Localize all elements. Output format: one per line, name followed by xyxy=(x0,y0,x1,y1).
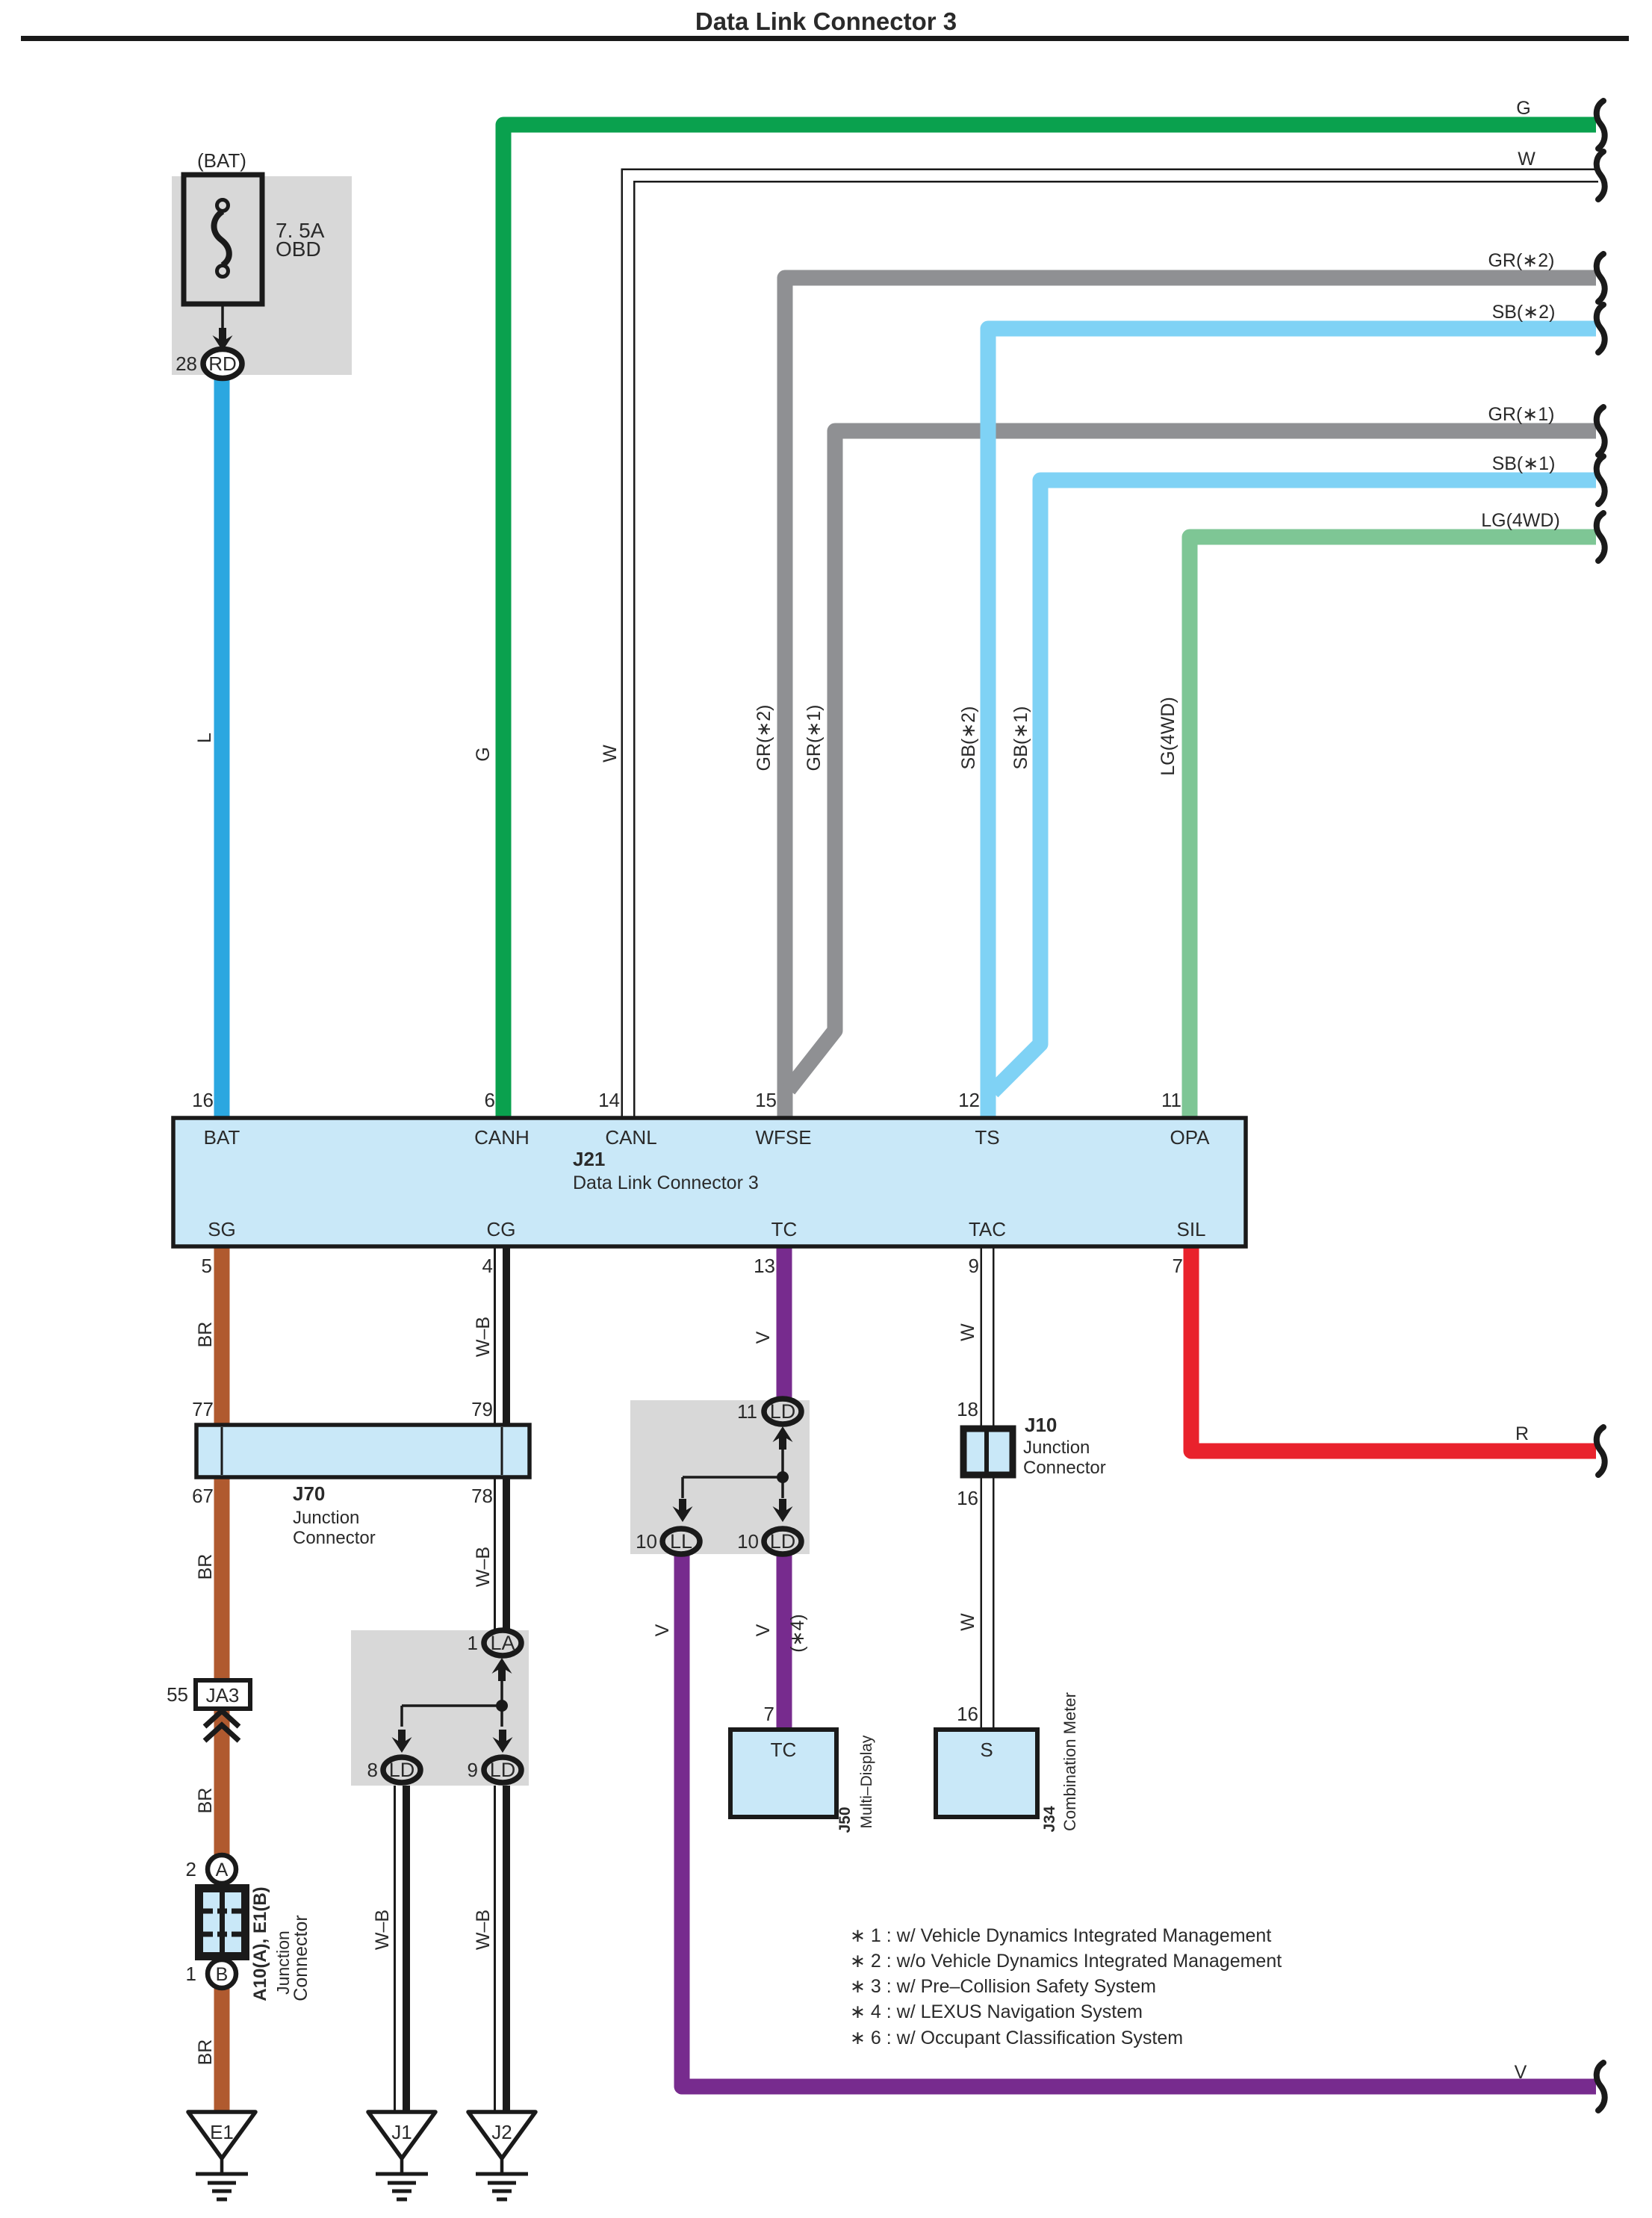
svg-text:G: G xyxy=(1516,98,1530,119)
svg-text:Connector: Connector xyxy=(293,1528,376,1548)
svg-text:V: V xyxy=(1515,2062,1527,2083)
svg-text:LG(4WD): LG(4WD) xyxy=(1158,697,1179,776)
svg-text:GR(∗1): GR(∗1) xyxy=(804,704,825,771)
svg-text:(BAT): (BAT) xyxy=(197,149,246,172)
svg-text:SIL: SIL xyxy=(1176,1218,1205,1240)
svg-text:J34: J34 xyxy=(1041,1806,1058,1832)
svg-text:16: 16 xyxy=(957,1703,978,1725)
svg-text:BAT: BAT xyxy=(204,1126,240,1149)
svg-text:LD: LD xyxy=(490,1759,516,1781)
svg-text:CG: CG xyxy=(487,1218,516,1240)
svg-text:Junction: Junction xyxy=(1023,1438,1090,1458)
svg-text:A: A xyxy=(216,1860,229,1880)
svg-text:16: 16 xyxy=(957,1487,978,1509)
svg-text:28: 28 xyxy=(176,352,197,375)
svg-text:LD: LD xyxy=(770,1530,796,1553)
svg-text:JA3: JA3 xyxy=(206,1684,240,1706)
svg-text:Junction: Junction xyxy=(293,1508,359,1528)
svg-text:1: 1 xyxy=(186,1963,196,1985)
svg-text:∗ 3 : w/ Pre–Collision Safety: ∗ 3 : w/ Pre–Collision Safety System xyxy=(850,1976,1156,1997)
svg-text:W–B: W–B xyxy=(372,1910,393,1950)
svg-text:9: 9 xyxy=(969,1255,979,1277)
svg-text:V: V xyxy=(753,1624,774,1636)
svg-text:16: 16 xyxy=(192,1089,214,1111)
svg-text:79: 79 xyxy=(471,1398,493,1420)
svg-text:Data Link Connector 3: Data Link Connector 3 xyxy=(573,1172,759,1193)
svg-text:SB(∗2): SB(∗2) xyxy=(958,706,979,770)
svg-text:67: 67 xyxy=(192,1485,214,1507)
svg-text:LD: LD xyxy=(389,1759,415,1781)
svg-text:WFSE: WFSE xyxy=(755,1126,811,1149)
svg-text:BR: BR xyxy=(195,1554,216,1580)
svg-text:SG: SG xyxy=(208,1218,236,1240)
svg-text:55: 55 xyxy=(167,1683,188,1706)
svg-text:LL: LL xyxy=(670,1530,692,1553)
svg-text:GR(∗1): GR(∗1) xyxy=(1488,404,1554,425)
svg-text:10: 10 xyxy=(636,1530,657,1553)
svg-text:∗ 1 : w/ Vehicle Dynamics Inte: ∗ 1 : w/ Vehicle Dynamics Integrated Man… xyxy=(850,1925,1271,1946)
svg-text:1: 1 xyxy=(468,1632,478,1654)
svg-text:Connector: Connector xyxy=(1023,1458,1106,1478)
svg-text:R: R xyxy=(1515,1423,1529,1444)
svg-text:TC: TC xyxy=(771,1218,798,1240)
svg-text:W: W xyxy=(600,745,621,762)
svg-text:GR(∗2): GR(∗2) xyxy=(754,704,774,771)
svg-text:78: 78 xyxy=(471,1485,493,1507)
svg-text:E1: E1 xyxy=(210,2121,234,2143)
svg-text:13: 13 xyxy=(754,1255,775,1277)
svg-text:Connector: Connector xyxy=(291,1915,311,2001)
svg-text:(∗4): (∗4) xyxy=(787,1614,808,1653)
svg-text:OBD: OBD xyxy=(276,237,321,261)
svg-text:W–B: W–B xyxy=(473,1910,494,1950)
svg-text:SB(∗2): SB(∗2) xyxy=(1492,302,1556,323)
svg-text:V: V xyxy=(753,1331,774,1343)
svg-text:BR: BR xyxy=(195,2040,216,2066)
svg-text:GR(∗2): GR(∗2) xyxy=(1488,250,1554,271)
svg-text:L: L xyxy=(194,733,215,743)
svg-text:W–B: W–B xyxy=(473,1317,494,1357)
svg-text:SB(∗1): SB(∗1) xyxy=(1010,706,1031,770)
svg-text:∗ 4 : w/ LEXUS Navigation Syst: ∗ 4 : w/ LEXUS Navigation System xyxy=(850,2001,1143,2022)
svg-text:OPA: OPA xyxy=(1170,1126,1211,1149)
svg-text:TC: TC xyxy=(771,1739,797,1761)
svg-text:77: 77 xyxy=(192,1398,214,1420)
svg-text:7: 7 xyxy=(764,1703,774,1725)
svg-text:5: 5 xyxy=(202,1255,212,1277)
svg-text:18: 18 xyxy=(957,1398,978,1420)
svg-text:6: 6 xyxy=(485,1089,495,1111)
svg-text:4: 4 xyxy=(482,1255,493,1277)
svg-text:Multi–Display: Multi–Display xyxy=(858,1735,875,1828)
svg-text:CANH: CANH xyxy=(474,1126,530,1149)
svg-text:BR: BR xyxy=(195,1322,216,1348)
svg-text:W: W xyxy=(1518,149,1535,170)
svg-text:∗ 2 : w/o Vehicle Dynamics Int: ∗ 2 : w/o Vehicle Dynamics Integrated Ma… xyxy=(850,1951,1282,1972)
svg-text:15: 15 xyxy=(755,1089,777,1111)
svg-text:J50: J50 xyxy=(836,1807,854,1833)
svg-text:V: V xyxy=(652,1624,673,1636)
svg-text:W–B: W–B xyxy=(473,1547,494,1587)
svg-text:14: 14 xyxy=(598,1089,620,1111)
svg-text:J10: J10 xyxy=(1025,1414,1057,1436)
svg-text:LA: LA xyxy=(490,1632,515,1654)
svg-text:7: 7 xyxy=(1173,1255,1183,1277)
svg-text:B: B xyxy=(216,1964,229,1985)
svg-text:A10(A), E1(B): A10(A), E1(B) xyxy=(250,1886,270,2001)
svg-text:9: 9 xyxy=(468,1759,478,1781)
svg-text:LG(4WD): LG(4WD) xyxy=(1481,510,1560,531)
svg-text:Combination Meter: Combination Meter xyxy=(1061,1692,1079,1831)
svg-text:J70: J70 xyxy=(293,1482,325,1505)
svg-text:10: 10 xyxy=(737,1530,759,1553)
svg-text:8: 8 xyxy=(367,1759,378,1781)
svg-text:LD: LD xyxy=(770,1400,796,1423)
svg-text:11: 11 xyxy=(1161,1089,1181,1111)
svg-text:∗ 6 : w/ Occupant Classificati: ∗ 6 : w/ Occupant Classification System xyxy=(850,2028,1183,2048)
svg-text:CANL: CANL xyxy=(605,1126,656,1149)
svg-text:J1: J1 xyxy=(391,2121,412,2143)
svg-text:TS: TS xyxy=(975,1126,999,1149)
svg-text:12: 12 xyxy=(958,1089,980,1111)
svg-text:BR: BR xyxy=(195,1788,216,1814)
svg-text:11: 11 xyxy=(737,1400,757,1423)
svg-text:TAC: TAC xyxy=(969,1218,1006,1240)
svg-text:J21: J21 xyxy=(573,1148,605,1170)
svg-text:W: W xyxy=(957,1323,978,1341)
svg-text:G: G xyxy=(473,747,494,761)
svg-text:SB(∗1): SB(∗1) xyxy=(1492,453,1556,474)
svg-text:W: W xyxy=(957,1613,978,1631)
svg-text:J2: J2 xyxy=(491,2121,512,2143)
svg-text:Data Link Connector 3: Data Link Connector 3 xyxy=(695,7,957,35)
svg-text:S: S xyxy=(980,1739,993,1761)
svg-text:2: 2 xyxy=(186,1858,196,1880)
svg-text:RD: RD xyxy=(208,352,237,375)
